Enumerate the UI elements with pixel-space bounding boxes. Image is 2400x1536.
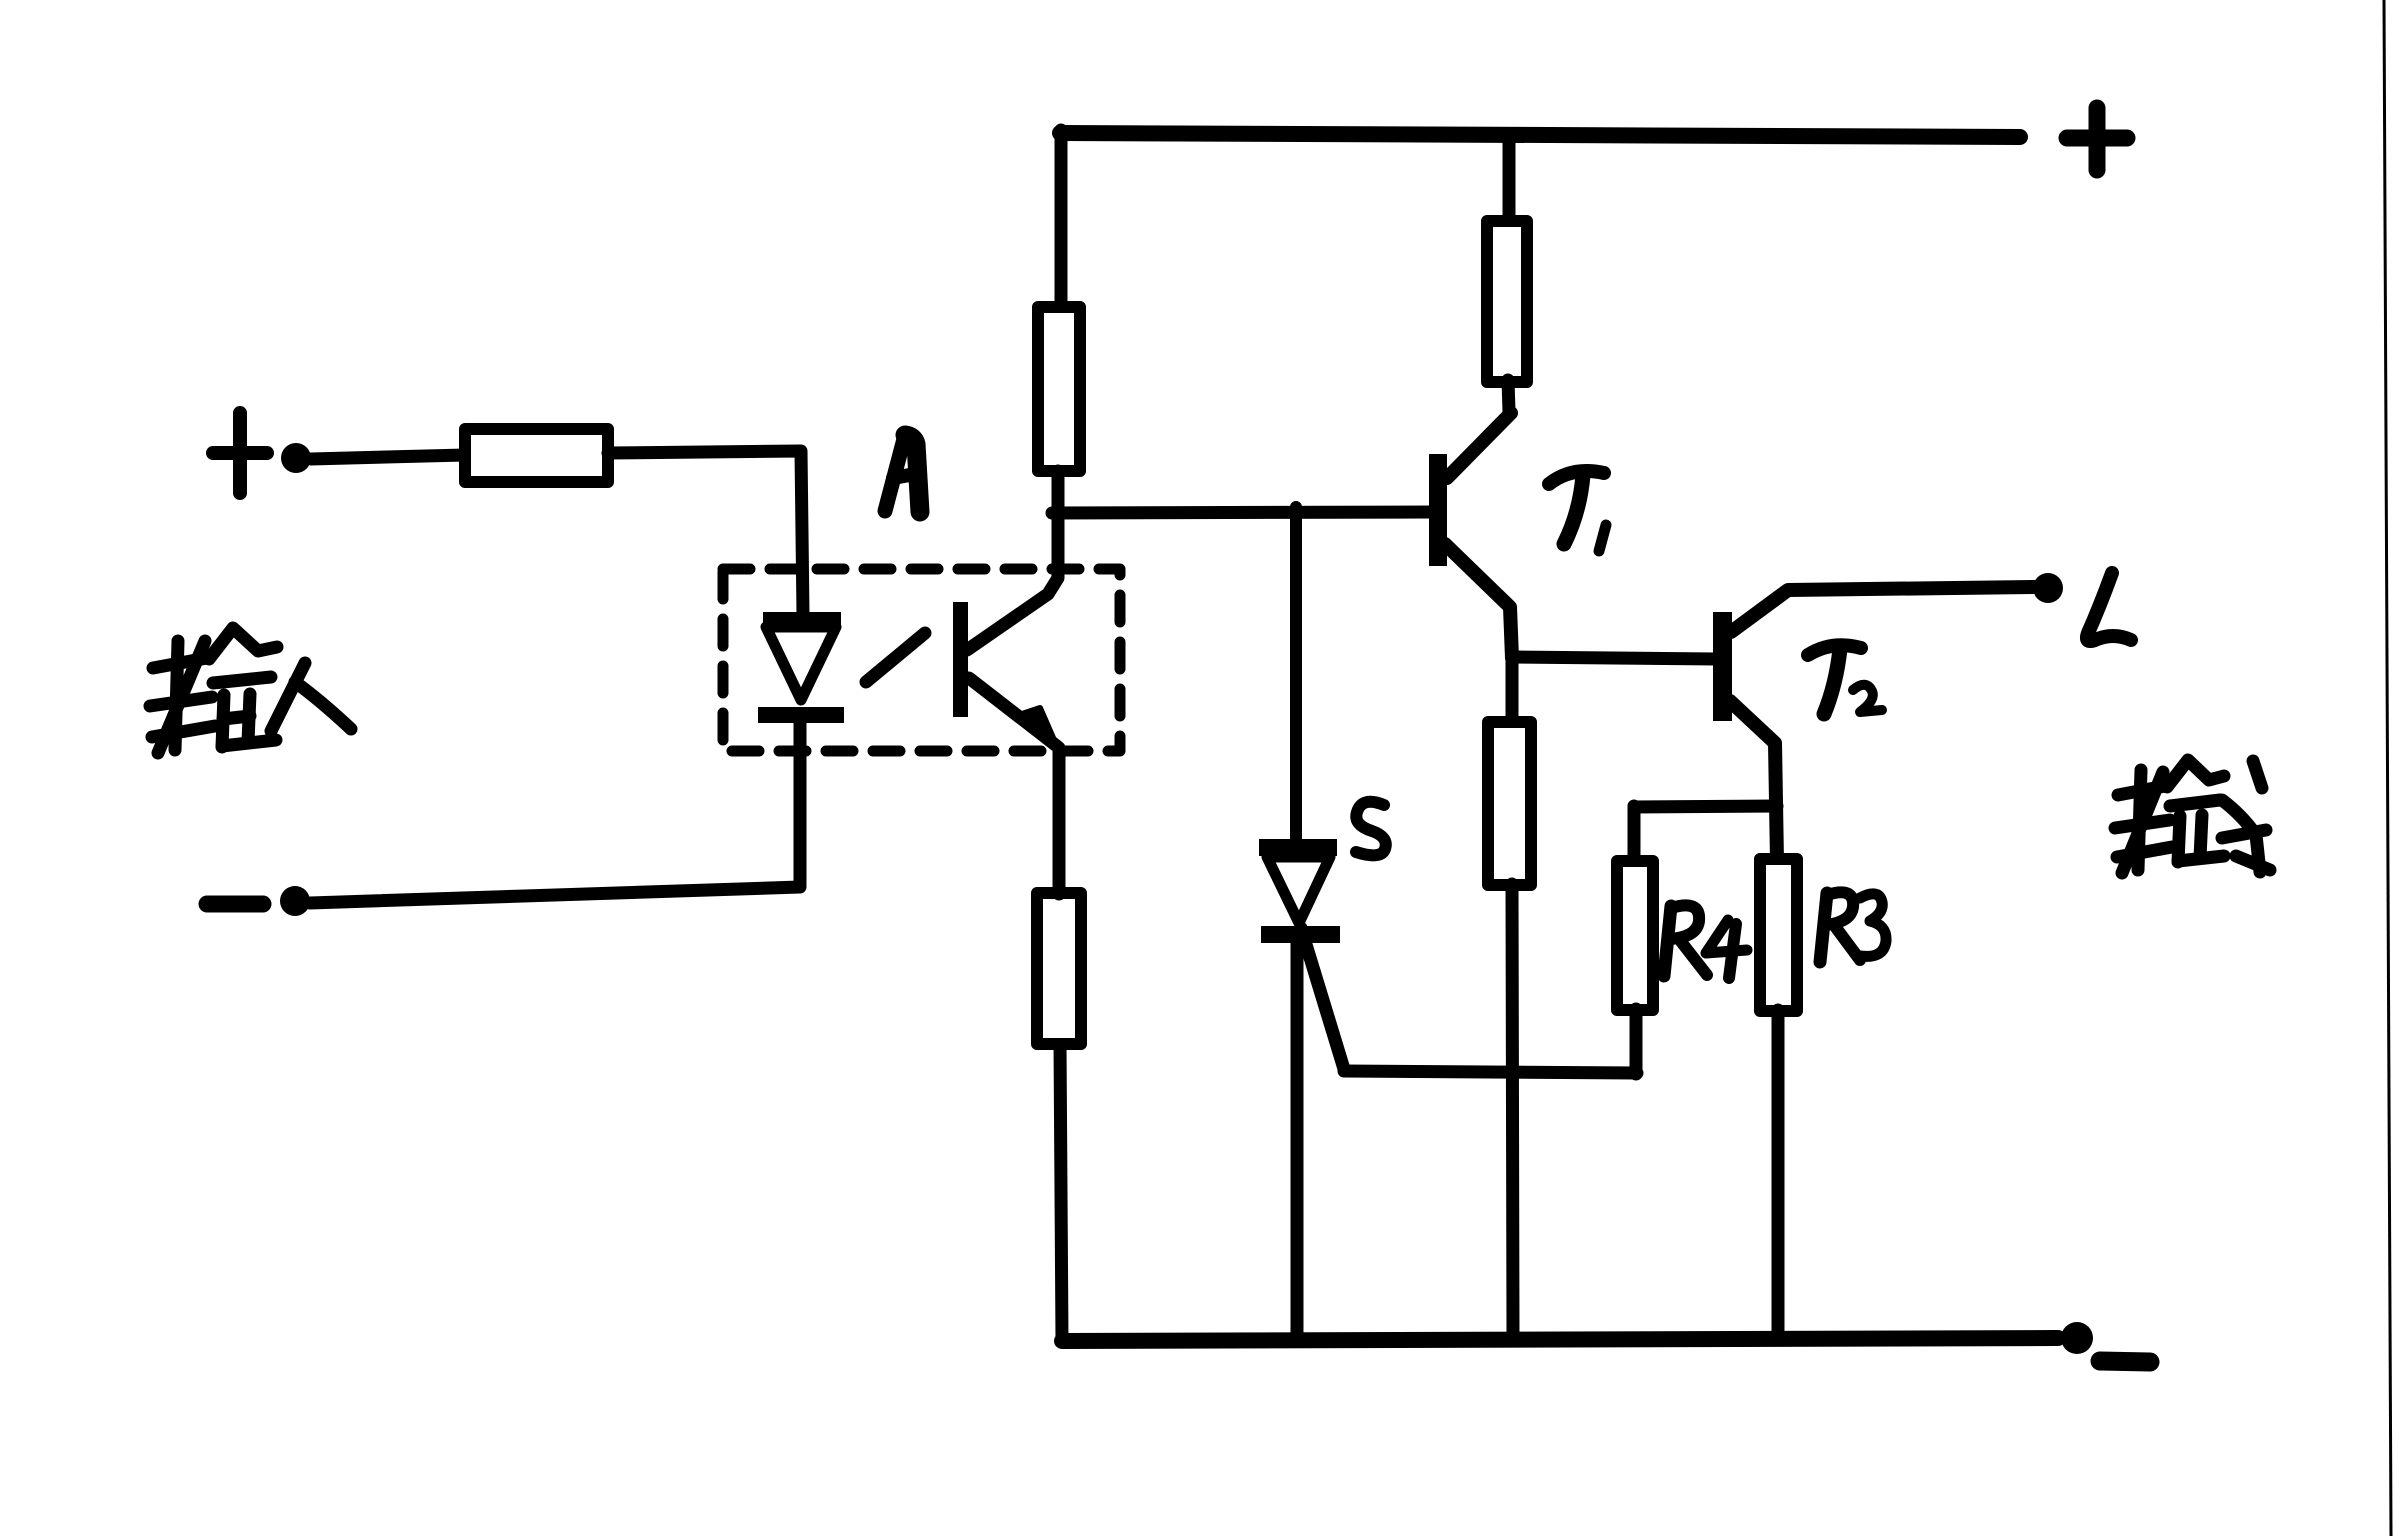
supply minus dash [2100, 1361, 2150, 1362]
page edge artifact line [2384, 0, 2391, 1536]
input plus sign [213, 413, 267, 493]
wire R5 bottom lead to bottom rail [1512, 884, 1513, 1338]
resistor R2 (above T1) [1487, 221, 1527, 382]
thyristor S triangle [1267, 857, 1330, 923]
thyristor S cathode bar [1261, 926, 1340, 943]
input minus dash [207, 896, 263, 913]
wire R2 bottom lead [1508, 380, 1509, 411]
wire bottom rail [1062, 1338, 2058, 1341]
label T2 [1808, 645, 1882, 714]
wire S branch vertical [1290, 507, 1302, 840]
resistor Rb (below optocoupler) [1037, 893, 1081, 1044]
LED cathode bar [758, 707, 844, 723]
wire S gate diagonal [1301, 928, 1344, 1069]
wire R3 bottom lead to bottom rail [1772, 1010, 1785, 1339]
transistor T2 base bar [1713, 612, 1732, 721]
transistor T1 base bar [1429, 454, 1447, 566]
wire input plus to resistor [311, 455, 465, 459]
label R3 [1820, 892, 1886, 962]
label shuchu (Chinese output) [2115, 760, 2270, 873]
phototransistor emitter arrowhead [1022, 708, 1057, 747]
resistor R5 (below T1 emitter) [1488, 722, 1531, 885]
wire T1 emitter to T2 base [1512, 657, 1716, 659]
node top-left corner [1055, 130, 1068, 307]
resistor R3 [1760, 859, 1797, 1011]
wire PT emitter vertical to Rb [1053, 748, 1066, 894]
phototransistor base bar [953, 602, 968, 717]
label shuru (Chinese input) [150, 628, 351, 753]
wire R1 bottom lead [1052, 471, 1065, 516]
label R4 [1664, 905, 1747, 978]
light arrow slash [866, 633, 925, 682]
label S [1356, 802, 1386, 856]
input plus dot [281, 443, 311, 473]
wire R5 top lead [1506, 657, 1519, 724]
wire R2 top lead [1503, 136, 1516, 223]
wire gate horizontal to R4 bottom [1344, 1071, 1637, 1073]
supply plus sign [2067, 108, 2127, 170]
wire resistor to LED anode [608, 451, 803, 614]
optocoupler dashed box [723, 569, 1120, 751]
resistor R1 (upper-left vertical) [1038, 307, 1080, 471]
transistor T1 emitter [1445, 544, 1512, 658]
phototransistor emitter [969, 678, 1058, 747]
transistor T2 collector [1731, 587, 2034, 632]
label T1 [1549, 471, 1606, 551]
node A junction wire to T1 base [1052, 512, 1432, 513]
wire S cathode lead [1291, 943, 1304, 1340]
resistor R4 [1617, 861, 1653, 1010]
thyristor S anode bar [1259, 839, 1337, 856]
wire lower-left vertical [1060, 1043, 1062, 1341]
input minus dot [280, 886, 310, 916]
wire R4 bottom lead [1630, 1009, 1643, 1074]
transistor T2 emitter [1730, 701, 1777, 861]
phototransistor collector [967, 513, 1058, 650]
wire LED cathode down and left to minus [310, 722, 800, 903]
LED triangle [766, 627, 836, 700]
wire R4 top lead [1628, 806, 1641, 864]
transistor T1 collector [1447, 413, 1511, 478]
label L [2087, 573, 2131, 641]
resistor Rin (input series) [465, 429, 608, 482]
LED anode bar [763, 612, 841, 627]
wire top supply rail [1060, 133, 2020, 137]
node L output dot [2033, 573, 2063, 603]
label A [885, 435, 920, 512]
node bottom rail end dot [2061, 1322, 2093, 1354]
wire T2 emitter to R4 top [1634, 806, 1777, 807]
